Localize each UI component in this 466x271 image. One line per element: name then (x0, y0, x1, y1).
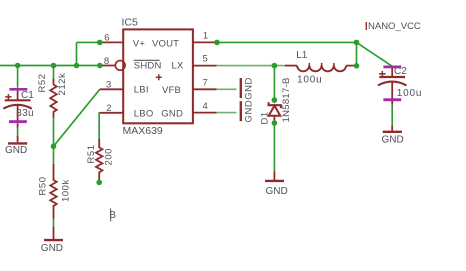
svg-text:212k: 212k (57, 73, 68, 96)
svg-text:R50: R50 (37, 176, 48, 195)
svg-text:8: 8 (104, 56, 109, 67)
svg-text:GND: GND (382, 135, 404, 146)
svg-text:VFB: VFB (162, 85, 181, 96)
svg-text:SHDN: SHDN (134, 61, 162, 72)
svg-text:GND: GND (41, 243, 63, 254)
svg-text:3: 3 (106, 80, 111, 91)
svg-text:200: 200 (103, 148, 114, 166)
svg-text:C2: C2 (394, 66, 407, 77)
svg-text:R52: R52 (37, 73, 48, 92)
svg-text:R51: R51 (86, 144, 97, 163)
svg-text:4: 4 (203, 101, 208, 112)
svg-text:VOUT: VOUT (152, 38, 179, 49)
svg-text:IC5: IC5 (122, 17, 139, 29)
svg-text:100u: 100u (297, 75, 322, 86)
svg-text:100k: 100k (60, 179, 71, 202)
svg-text:GND: GND (244, 77, 255, 100)
svg-text:33u: 33u (16, 108, 34, 119)
svg-text:NANO_VCC: NANO_VCC (368, 21, 421, 32)
svg-text:GND: GND (244, 100, 255, 123)
svg-text:1N5817-B: 1N5817-B (281, 77, 292, 122)
svg-text:GND: GND (266, 186, 288, 197)
svg-text:MAX639: MAX639 (123, 125, 163, 137)
svg-text:5: 5 (203, 54, 208, 65)
svg-text:C1: C1 (21, 90, 34, 101)
svg-text:GND: GND (5, 145, 27, 156)
svg-text:LX: LX (172, 61, 184, 72)
svg-text:D1: D1 (259, 111, 270, 124)
svg-text:GND: GND (161, 109, 183, 120)
svg-text:100u: 100u (397, 88, 422, 99)
svg-text:2: 2 (106, 103, 111, 114)
svg-text:LBO: LBO (134, 109, 154, 120)
svg-text:7: 7 (203, 77, 208, 88)
svg-text:LBI: LBI (134, 85, 149, 96)
svg-text:L1: L1 (296, 50, 308, 61)
svg-text:6: 6 (104, 33, 109, 44)
svg-text:B: B (109, 210, 116, 221)
svg-text:V+: V+ (133, 38, 146, 49)
svg-text:1: 1 (203, 30, 208, 41)
